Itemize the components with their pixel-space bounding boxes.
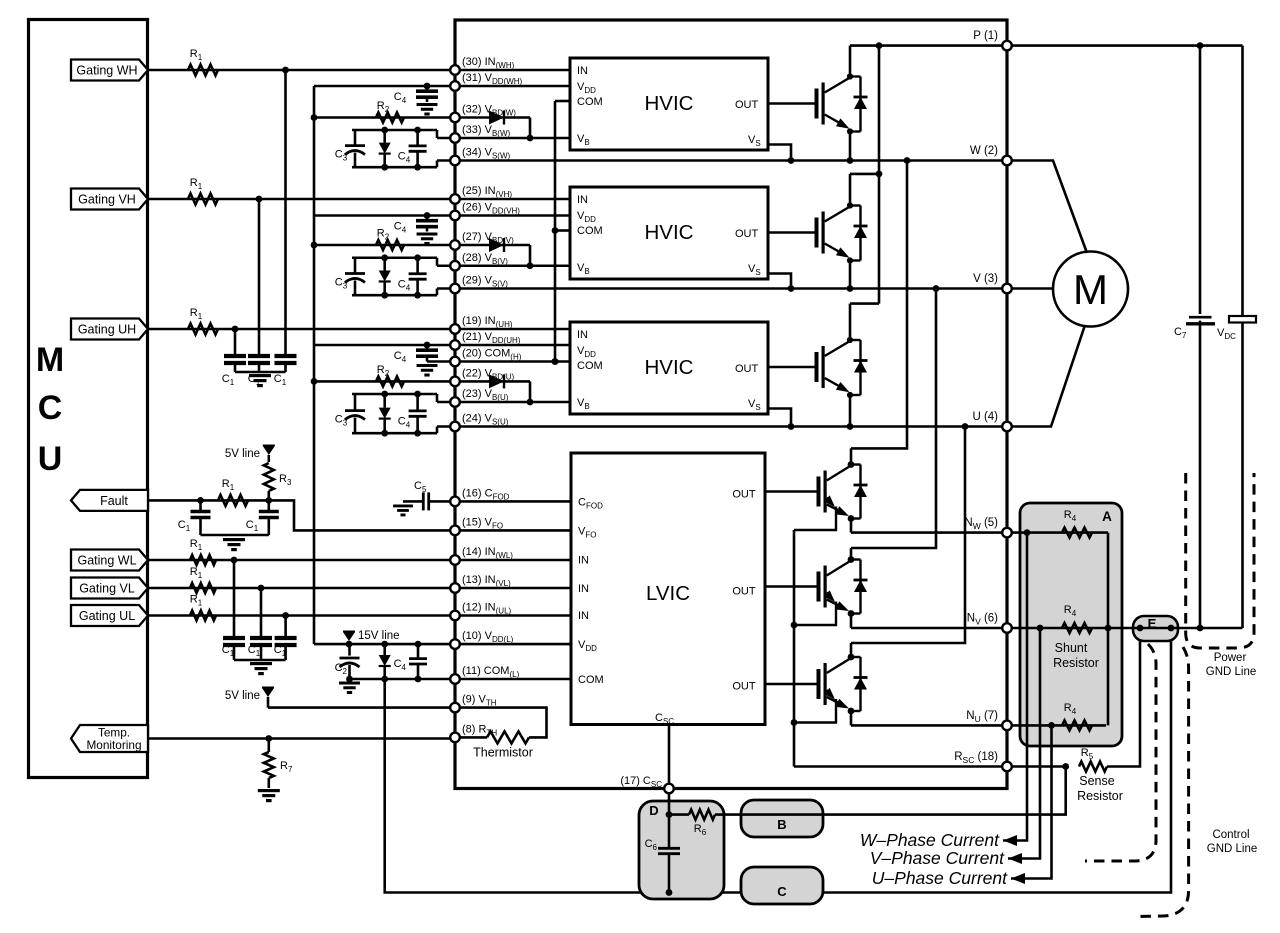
svg-text:OUT: OUT: [732, 681, 756, 693]
svg-text:GND Line: GND Line: [1206, 666, 1257, 678]
svg-text:Gating UH: Gating UH: [78, 322, 136, 336]
svg-text:C: C: [38, 389, 63, 427]
svg-text:OUT: OUT: [735, 228, 759, 240]
svg-text:COM: COM: [578, 674, 604, 686]
svg-text:HVIC: HVIC: [645, 221, 694, 244]
svg-text:IN: IN: [577, 329, 588, 341]
svg-text:RSC (18): RSC (18): [954, 751, 998, 765]
svg-text:M: M: [1073, 266, 1108, 313]
svg-text:Gating WL: Gating WL: [77, 553, 136, 567]
svg-text:Gating VH: Gating VH: [78, 192, 136, 206]
svg-text:OUT: OUT: [732, 586, 756, 598]
svg-text:Sense: Sense: [1079, 774, 1114, 788]
svg-text:B: B: [777, 817, 786, 832]
svg-text:W (2): W (2): [970, 145, 998, 157]
svg-text:C: C: [777, 884, 787, 899]
svg-text:Control: Control: [1212, 829, 1249, 841]
svg-text:V (3): V (3): [973, 273, 998, 285]
svg-text:COM: COM: [577, 360, 603, 372]
svg-text:D: D: [649, 803, 658, 818]
svg-text:Thermistor: Thermistor: [473, 746, 533, 760]
svg-text:U (4): U (4): [972, 411, 998, 423]
svg-text:IN: IN: [577, 194, 588, 206]
svg-text:LVIC: LVIC: [646, 582, 690, 605]
svg-text:IN: IN: [578, 555, 589, 567]
svg-text:5V line: 5V line: [225, 448, 260, 460]
svg-text:Resistor: Resistor: [1077, 789, 1123, 803]
svg-text:COM: COM: [577, 96, 603, 108]
svg-text:P (1): P (1): [973, 30, 998, 42]
svg-text:U: U: [38, 440, 63, 478]
svg-text:5V line: 5V line: [225, 690, 260, 702]
svg-text:HVIC: HVIC: [645, 356, 694, 379]
svg-text:COM: COM: [577, 225, 603, 237]
svg-text:Shunt: Shunt: [1055, 641, 1088, 655]
svg-text:NU (7): NU (7): [966, 710, 998, 724]
svg-text:IN: IN: [578, 610, 589, 622]
svg-text:Gating VL: Gating VL: [79, 581, 135, 595]
svg-text:OUT: OUT: [732, 489, 756, 501]
svg-text:HVIC: HVIC: [645, 92, 694, 115]
svg-text:W–Phase Current: W–Phase Current: [860, 830, 1000, 850]
svg-text:M: M: [36, 341, 64, 379]
svg-text:IN: IN: [577, 65, 588, 77]
svg-text:NV (6): NV (6): [967, 613, 998, 627]
svg-text:OUT: OUT: [735, 99, 759, 111]
svg-text:OUT: OUT: [735, 363, 759, 375]
svg-text:Gating WH: Gating WH: [76, 63, 137, 77]
svg-text:Monitoring: Monitoring: [86, 738, 141, 752]
svg-text:GND Line: GND Line: [1207, 843, 1258, 855]
svg-text:V–Phase Current: V–Phase Current: [870, 848, 1005, 868]
svg-text:15V line: 15V line: [358, 630, 400, 642]
svg-text:A: A: [1102, 509, 1112, 524]
svg-text:NW (5): NW (5): [964, 517, 998, 531]
svg-text:Gating UL: Gating UL: [79, 609, 135, 623]
svg-text:Power: Power: [1214, 652, 1247, 664]
svg-text:IN: IN: [578, 583, 589, 595]
svg-text:U–Phase Current: U–Phase Current: [872, 868, 1008, 888]
svg-text:Resistor: Resistor: [1053, 656, 1099, 670]
svg-text:Fault: Fault: [100, 494, 128, 508]
